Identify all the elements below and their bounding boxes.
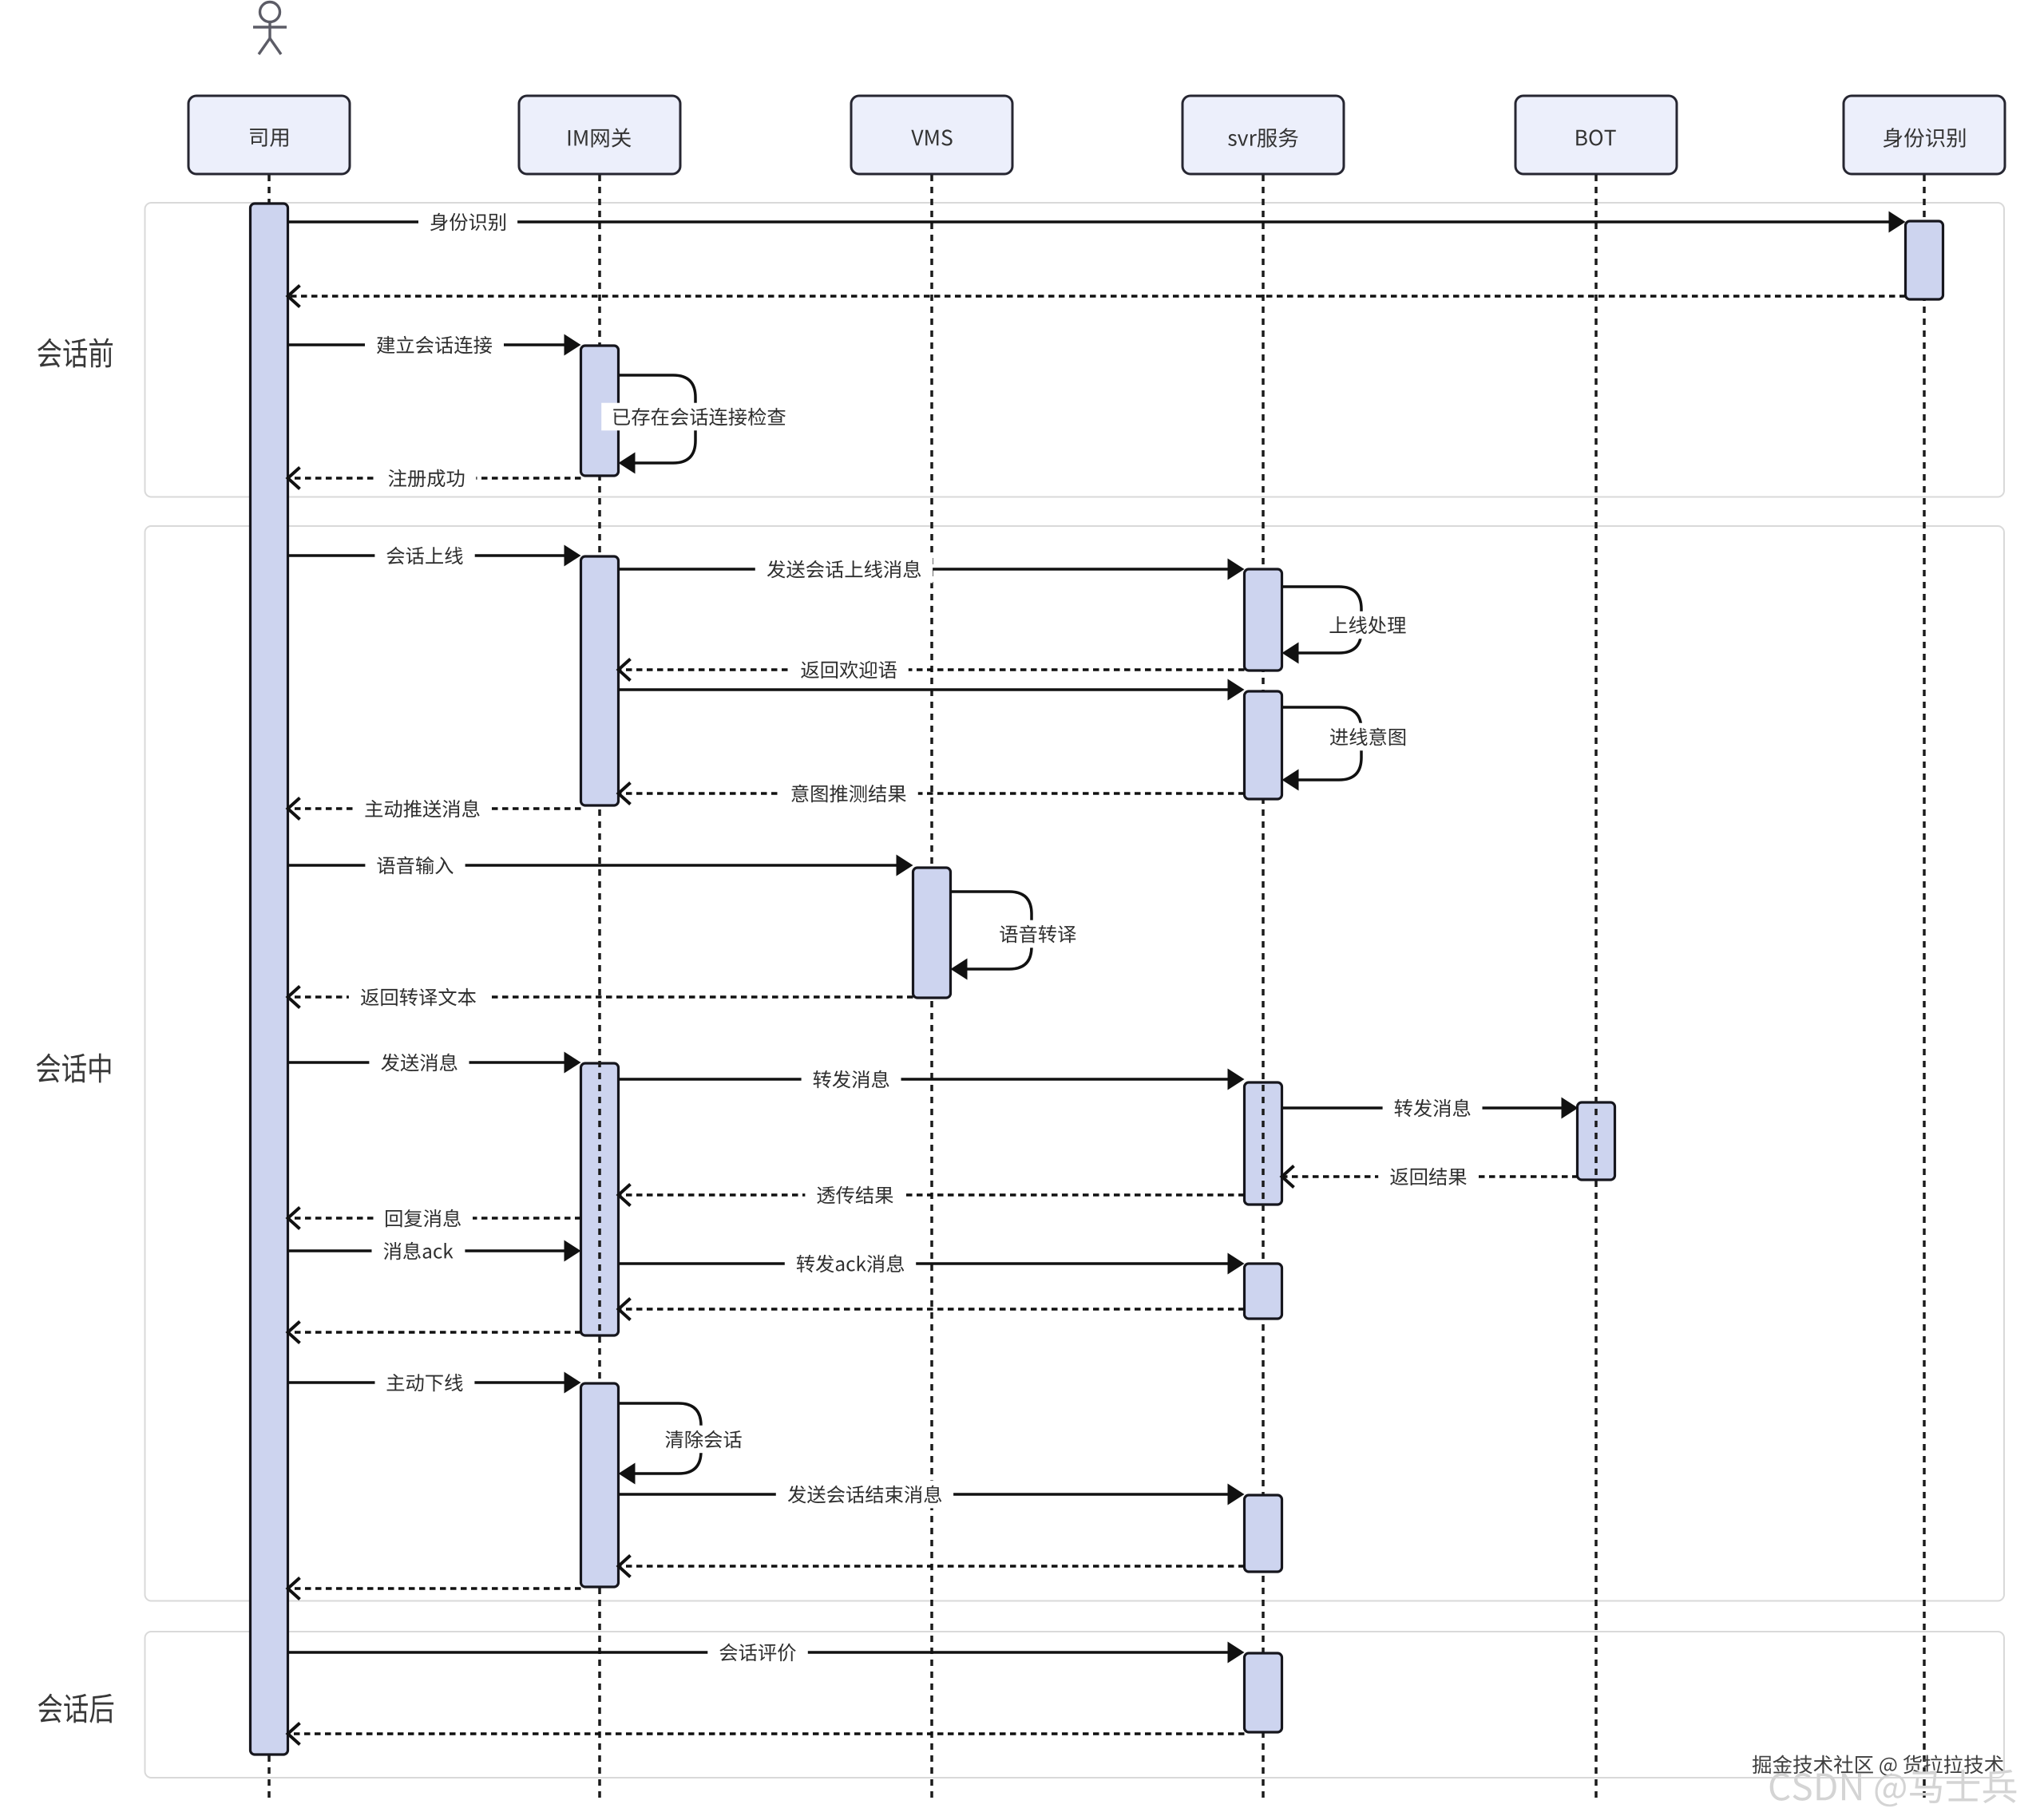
phase frame 会话中 (145, 526, 2005, 1601)
dashed return (IM网关→司用) (288, 1587, 581, 1590)
activation bar BOT (1578, 1102, 1615, 1180)
arrow 身份识别 (司用→身份识别) (288, 220, 1891, 224)
activation bar svr服务 #6 (1245, 1653, 1282, 1732)
activation bar svr服务 #3 (1245, 1082, 1282, 1205)
participant box VMS (851, 96, 1012, 174)
activation bar 身份识别 (1906, 221, 1943, 299)
arrow 发送会话结束消息 (IM网关→svr服务) (619, 1493, 1230, 1496)
activation bar 司用 main (251, 204, 288, 1755)
dashed 回复消息 (IM网关→司用) (288, 1217, 581, 1220)
activation bar IM网关 #2 (581, 556, 619, 805)
arrow 会话评价 (司用→svr服务) (288, 1651, 1230, 1654)
self-loop 清除会话 on IM网关 (619, 1403, 702, 1474)
arrow 转发消息 (IM网关→svr服务) (619, 1078, 1230, 1081)
activation bar svr服务 #4 (1245, 1264, 1282, 1319)
lifeline 身份识别 (1923, 175, 1926, 1801)
dashed return (svr服务→司用) (288, 1732, 1245, 1735)
dashed return (svr服务→IM网关) (619, 1565, 1245, 1568)
participant box BOT (1515, 96, 1677, 174)
watermark CSDN @马士兵 (1770, 1770, 2017, 1806)
activation bar svr服务 #1 (1245, 569, 1282, 671)
lifeline svr服务 (1262, 175, 1265, 1801)
lifeline 司用 (267, 175, 271, 1801)
activation bar VMS (913, 868, 951, 998)
activation bar IM网关 #3 (581, 1063, 619, 1335)
actor stick figure (司用) (253, 2, 287, 55)
dashed return (身份识别→司用) (288, 295, 1906, 298)
participant box svr服务 (1182, 96, 1344, 174)
arrow 语音输入 (司用→VMS) (288, 864, 898, 867)
phase label 会话前 (38, 338, 113, 368)
phase frame 会话前 (145, 203, 2005, 497)
dashed 主动推送消息 (IM网关→司用) (288, 807, 581, 810)
phase frame 会话后 (145, 1632, 2005, 1778)
self-loop 上线处理 on svr服务 (1282, 587, 1362, 653)
arrow 消息ack (司用→IM网关) (288, 1249, 566, 1252)
dashed 意图推测结果 (svr服务→IM网关) (619, 792, 1245, 795)
arrow 主动下线 (司用→IM网关) (288, 1381, 566, 1384)
activation bar svr服务 #5 (1245, 1495, 1282, 1572)
watermark 掘金技术社区 @ 货拉拉技术 (1753, 1755, 2003, 1775)
phase label 会话后 (38, 1694, 113, 1723)
dashed 注册成功 (IM网关→司用) (288, 477, 581, 480)
arrow 转发消息 (svr服务→BOT) (1282, 1106, 1563, 1110)
arrow (IM网关→svr服务) unlabeled (619, 688, 1230, 691)
activation bar IM网关 #1 (581, 346, 619, 476)
activation bar svr服务 #2 (1245, 691, 1282, 799)
self-loop 已存在会话连接检查 on IM网关 (619, 375, 696, 463)
arrow 发送消息 (司用→IM网关) (288, 1061, 566, 1064)
participant box IM网关 (519, 96, 680, 174)
lifeline VMS (930, 175, 933, 1801)
dashed return (svr服务→IM网关) (619, 1308, 1245, 1311)
participant box 司用 (188, 96, 350, 174)
lifeline BOT (1594, 175, 1598, 1801)
dashed 返回欢迎语 (svr服务→IM网关) (619, 668, 1245, 671)
participant box 身份识别 (1844, 96, 2005, 174)
self-loop 进线意图 on svr服务 (1282, 707, 1362, 780)
arrow 会话上线 (司用→IM网关) (288, 554, 566, 557)
dashed 返回转译文本 (VMS→司用) (288, 995, 913, 999)
arrow 发送会话上线消息 (IM网关→svr服务) (619, 568, 1230, 571)
activation bar IM网关 #4 (581, 1383, 619, 1587)
lifeline IM网关 (598, 175, 601, 1801)
arrow 转发ack消息 (IM网关→svr服务) (619, 1262, 1230, 1265)
self-loop 语音转译 on VMS (951, 892, 1032, 969)
dashed 返回结果 (BOT→svr服务) (1282, 1175, 1579, 1178)
arrow 建立会话连接 (司用→IM网关) (288, 343, 566, 346)
phase label 会话中 (37, 1054, 111, 1083)
dashed 透传结果 (svr服务→IM网关) (619, 1193, 1245, 1197)
dashed return (IM网关→司用) (288, 1331, 581, 1334)
